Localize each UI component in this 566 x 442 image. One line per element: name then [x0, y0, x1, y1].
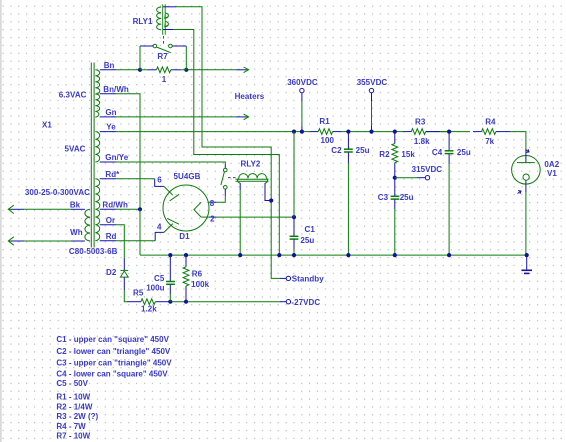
wire -27VDC line	[170, 301, 280, 303]
notes text block	[56, 335, 172, 441]
svg-text:25u: 25u	[457, 148, 471, 157]
svg-text:25u: 25u	[356, 146, 370, 155]
wire center-tap down to ground bus	[139, 209, 141, 255]
wire Rd to tube pin 4	[100, 232, 164, 240]
schematic text labels	[106, 17, 560, 314]
svg-text:2: 2	[210, 215, 215, 224]
svg-text:V1: V1	[547, 169, 557, 178]
svg-text:RLY1: RLY1	[133, 17, 153, 26]
resistor R6 (vertical)	[183, 255, 189, 302]
relay RLY2 coil	[236, 174, 269, 183]
svg-text:1.2k: 1.2k	[141, 305, 157, 314]
svg-text:Bn/Wh: Bn/Wh	[103, 85, 129, 94]
svg-text:0A2: 0A2	[544, 160, 559, 169]
svg-text:Ye: Ye	[106, 123, 116, 132]
svg-text:X1: X1	[42, 120, 52, 129]
svg-text:Gn/Ye: Gn/Ye	[105, 153, 128, 162]
svg-text:Bn: Bn	[104, 61, 115, 70]
resistor R5	[127, 299, 170, 305]
resistor R4	[473, 129, 510, 135]
terminal 355VDC	[369, 88, 373, 131]
tube labels	[157, 172, 215, 241]
svg-text:355VDC: 355VDC	[357, 78, 388, 87]
svg-text:Gn: Gn	[105, 108, 116, 117]
node: Bn/R7 right junction	[184, 68, 188, 72]
node: RLY2 coil / standby junction	[269, 198, 273, 202]
svg-text:7k: 7k	[485, 137, 494, 146]
terminal -27VDC	[286, 300, 290, 304]
D1 anode plate (pin 4)	[164, 218, 179, 232]
ground symbol	[521, 255, 532, 273]
wire RLY2 contact bottom lead to tube pin 8	[209, 189, 225, 202]
transformer X1 secondary winding 6.3VAC (Bn to Gn)	[95, 70, 100, 117]
svg-text:4: 4	[157, 223, 162, 232]
resistor R1	[302, 129, 349, 135]
svg-text:R3 - 2W (?): R3 - 2W (?)	[56, 412, 98, 421]
left page border	[0, 0, 2, 442]
svg-text:100k: 100k	[191, 280, 209, 289]
wire RLY1 bottom lead	[163, 30, 279, 256]
relay RLY1 coil	[157, 4, 169, 35]
D1 filament	[194, 202, 201, 217]
capacitor C2	[344, 132, 353, 256]
capacitor C5	[166, 255, 175, 302]
resistor R2 (vertical)	[392, 132, 398, 178]
svg-text:Rd*: Rd*	[105, 170, 120, 179]
wire RLY1 top lead	[163, 7, 280, 279]
svg-text:Heaters: Heaters	[235, 92, 265, 101]
wire Rd/Wh (center tap)	[100, 208, 140, 210]
wire Wh lead with arrow	[8, 237, 85, 245]
D1 anode plate (pin 6)	[164, 186, 179, 201]
V1 pin marks	[518, 149, 530, 194]
transformer X1 secondary winding 5VAC (Ye to Gn/Ye)	[95, 132, 99, 162]
svg-text:-27VDC: -27VDC	[291, 298, 320, 307]
wire Bn/Wh lead + drop to center-tap junction	[100, 94, 140, 210]
svg-text:R2 - 1/4W: R2 - 1/4W	[56, 403, 92, 412]
svg-text:25u: 25u	[400, 193, 414, 202]
svg-text:R1 - 10W: R1 - 10W	[56, 393, 90, 402]
svg-text:Rd: Rd	[106, 232, 117, 241]
svg-text:Standby: Standby	[292, 275, 324, 284]
wire tube pin 2 line	[201, 216, 294, 218]
svg-text:R7: R7	[157, 52, 168, 61]
svg-text:R5: R5	[133, 289, 144, 298]
wire Gn/Ye to RLY2 contact	[100, 162, 226, 168]
wire Rd* to tube pin 6	[100, 179, 164, 187]
transformer labels	[25, 61, 129, 256]
node: center-tap junction	[138, 207, 142, 211]
wire RLY2 left lead to ground bus	[239, 183, 241, 255]
diode D2	[120, 270, 128, 277]
svg-text:Or: Or	[106, 216, 115, 225]
transformer X1 primary winding (Bk/Wh)	[85, 209, 90, 241]
svg-text:C3 - upper can "triangle" 450V: C3 - upper can "triangle" 450V	[56, 359, 172, 368]
svg-text:5U4GB: 5U4GB	[174, 172, 201, 181]
node R2/315VDC junction	[393, 176, 397, 180]
svg-text:C2: C2	[331, 146, 342, 155]
svg-text:360VDC: 360VDC	[287, 78, 318, 87]
svg-text:C80-5003-6B: C80-5003-6B	[69, 247, 118, 256]
svg-text:315VDC: 315VDC	[412, 165, 443, 174]
svg-text:6.3VAC: 6.3VAC	[59, 91, 87, 100]
svg-text:Wh: Wh	[70, 228, 83, 237]
svg-text:15k: 15k	[401, 150, 415, 159]
transformer X1 core	[91, 63, 94, 248]
wire Bk lead with arrow	[8, 205, 85, 213]
svg-text:C4: C4	[432, 148, 443, 157]
RLY2 actuation dashed link	[228, 177, 237, 179]
svg-text:R4: R4	[485, 118, 496, 127]
ground bus	[140, 254, 527, 256]
wire D2 anode down to R5 line	[124, 277, 127, 302]
node R5/C5 junction	[168, 300, 172, 304]
RLY1 actuation dashed link	[163, 36, 165, 45]
wire Ye / B+ main line	[100, 131, 302, 133]
svg-text:D2: D2	[106, 268, 117, 277]
svg-text:D1: D1	[179, 232, 190, 241]
relay RLY1 contact	[153, 44, 172, 53]
resistor R3	[395, 129, 440, 135]
relay RLY2 contact	[221, 168, 227, 189]
node ground bus junctions	[168, 253, 172, 257]
svg-text:Rd/Wh: Rd/Wh	[102, 200, 128, 209]
node R6 bottom junction	[184, 300, 188, 304]
svg-text:6: 6	[157, 176, 162, 185]
capacitor C3	[391, 178, 400, 255]
transformer X1 secondary HV winding (Rd* to Rd)	[95, 179, 99, 241]
wire Bn (heater line)	[100, 67, 249, 73]
svg-text:Bk: Bk	[70, 200, 81, 209]
svg-text:R6: R6	[192, 270, 203, 279]
svg-text:1.8k: 1.8k	[414, 137, 430, 146]
svg-text:100u: 100u	[146, 284, 164, 293]
svg-text:100: 100	[321, 136, 335, 145]
tube D1 5U4GB envelope	[163, 185, 209, 231]
svg-text:C5 - 50V: C5 - 50V	[56, 379, 88, 388]
node B+ junctions	[292, 130, 296, 134]
svg-text:C5: C5	[154, 274, 165, 283]
svg-text:R3: R3	[415, 118, 426, 127]
svg-text:C2 - lower can "triangle" 450V: C2 - lower can "triangle" 450V	[56, 347, 171, 356]
wire RLY1 contact right lead	[172, 46, 186, 70]
B+ line right segment	[348, 132, 526, 150]
wire RLY1 contact left lead	[140, 46, 153, 70]
node: pin2/C1 junction	[292, 215, 296, 219]
svg-text:C4 - lower can "square" 450V: C4 - lower can "square" 450V	[56, 370, 168, 379]
capacitor C4	[445, 132, 454, 256]
svg-text:R1: R1	[319, 117, 330, 126]
svg-text:C3: C3	[378, 193, 389, 202]
wire Gn (heater line 2) with arrow	[100, 114, 249, 120]
svg-text:300-25-0-300VAC: 300-25-0-300VAC	[25, 188, 90, 197]
svg-text:R4 - 7W: R4 - 7W	[56, 422, 86, 431]
V1 anode lead	[525, 150, 527, 163]
svg-text:25u: 25u	[300, 236, 314, 245]
wire Or to D2	[100, 225, 125, 270]
node: Bn/R7 left junction	[138, 68, 142, 72]
svg-text:R7 - 10W: R7 - 10W	[56, 432, 90, 441]
V1 cathode lead to ground	[525, 180, 527, 255]
capacitor C1 (branch from B+ down through pin2 node)	[290, 132, 299, 256]
svg-text:5VAC: 5VAC	[65, 144, 86, 153]
svg-text:8: 8	[210, 199, 215, 208]
svg-text:1: 1	[162, 75, 167, 84]
svg-text:C1 - upper can "square" 450V: C1 - upper can "square" 450V	[56, 335, 169, 344]
wire RLY2 right lead to standby net	[265, 183, 271, 201]
svg-text:RLY2: RLY2	[241, 160, 261, 169]
terminal 360VDC	[300, 88, 304, 131]
V1 cathode	[523, 174, 529, 180]
terminal 315VDC	[395, 176, 430, 180]
terminal Standby	[280, 277, 286, 279]
tube V1 0A2 envelope	[512, 156, 541, 185]
V1 anode plate	[517, 162, 535, 164]
svg-text:R2: R2	[379, 150, 390, 159]
resistor R7	[140, 67, 186, 73]
svg-text:C1: C1	[305, 225, 316, 234]
